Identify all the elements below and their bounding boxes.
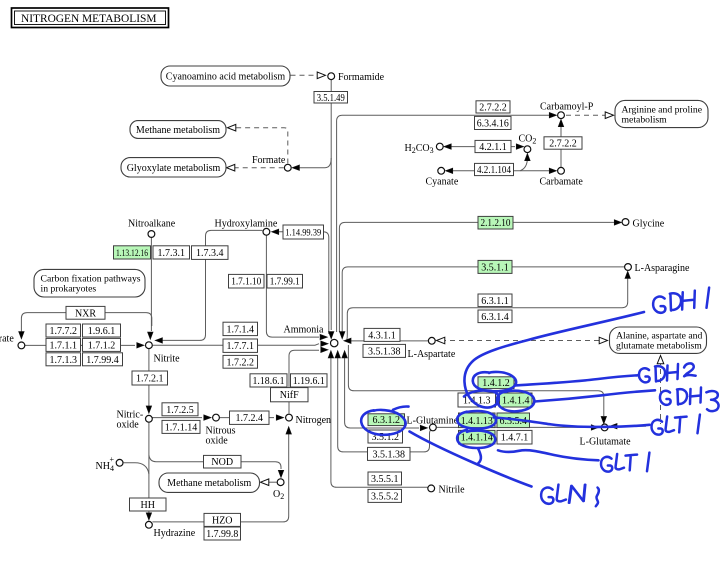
wire ammonia up to carbamoyl-P horizontal	[337, 115, 549, 332]
enzyme 4.2.1.104	[475, 163, 514, 176]
enzyme 1.4.1.2 (green)	[478, 377, 514, 389]
enzyme 1.7.1.2	[83, 338, 121, 351]
enzyme 3.5.1.2	[368, 430, 403, 443]
wire ammonia down to 3.5.1.38 glutaminase line	[338, 352, 432, 452]
title box NITROGEN METABOLISM	[12, 8, 169, 28]
wire ammonia to glycine line	[339, 222, 618, 332]
wire hydroxylamine down to ammonia 1.7.99.1	[266, 235, 319, 337]
svg-text:6.3.4.16: 6.3.4.16	[477, 118, 509, 129]
wire ammonia down to 1.4.1.2 glutamate line	[348, 345, 603, 416]
arrow down into L-glutamate	[601, 417, 606, 424]
dashed link L-glutamate to alanine metabolism	[660, 360, 662, 424]
svg-text:oxide: oxide	[206, 435, 229, 446]
svg-text:6.3.1.1: 6.3.1.1	[481, 296, 509, 307]
wire nitric oxide down through HH to hydrazine	[148, 423, 150, 514]
arrow down into ammonia from asparagine line	[340, 332, 345, 339]
blue handwriting GLT1a letter T	[675, 417, 687, 433]
svg-text:L-Glutamate: L-Glutamate	[580, 436, 632, 447]
blue handwriting GLT1a letter G	[652, 420, 663, 435]
arrow right into glycine	[614, 220, 621, 225]
arrow down into nitrate from NXR	[19, 332, 24, 339]
wire H2CO3 - 4.2.1.1 - CO2	[446, 146, 515, 148]
blue circle around 6.3.1.2	[361, 410, 405, 435]
svg-text:NifF: NifF	[280, 390, 299, 401]
svg-text:Cyanate: Cyanate	[426, 177, 459, 188]
wire 6.3.1.1 line ammonia to L-asparagine	[346, 276, 628, 341]
svg-text:3.5.5.2: 3.5.5.2	[371, 491, 399, 502]
svg-text:1.4.1.2: 1.4.1.2	[482, 378, 510, 389]
pathway box Cyanoamino acid metabolism	[161, 66, 290, 86]
svg-text:3.5.1.38: 3.5.1.38	[368, 346, 401, 357]
enzyme 1.9.6.1	[83, 324, 121, 337]
svg-text:1.7.99.1: 1.7.99.1	[270, 277, 300, 288]
arrow down into hydrazine	[146, 513, 151, 520]
svg-text:Carbamate: Carbamate	[540, 177, 584, 188]
svg-text:3.5.1.1: 3.5.1.1	[481, 262, 509, 273]
pathway box Glyoxylate metabolism	[121, 158, 226, 177]
node L-Asparagine	[625, 264, 632, 271]
wire curve carbamate line up to CO2	[520, 158, 527, 171]
svg-text:3.5.5.1: 3.5.5.1	[371, 474, 399, 485]
blue handwriting GDH2 letter D	[655, 366, 665, 381]
wire nitrogen fixation up to ammonia	[289, 350, 319, 413]
wire nitric oxide to nitrous oxide	[152, 417, 202, 419]
enzyme 1.7.99.8	[204, 527, 241, 540]
arrow up into carbamoyl-P from carbamate	[558, 120, 563, 127]
enzyme 1.7.1.14	[162, 420, 200, 433]
blue handwriting GDH3 letter D	[677, 389, 687, 404]
arrow up into CO2 from carbamate line	[525, 154, 530, 161]
svg-text:L-Glutamine: L-Glutamine	[407, 415, 459, 426]
svg-text:Hydrazine: Hydrazine	[154, 528, 196, 539]
enzyme 1.7.7.2	[46, 324, 81, 337]
blue handwriting GDH1 letter G	[653, 297, 665, 313]
svg-text:HZO: HZO	[212, 515, 233, 526]
svg-text:3.5.1.49: 3.5.1.49	[317, 93, 345, 104]
blue GDH1 tail curve	[464, 312, 644, 408]
enzyme 6.3.4.16	[475, 116, 512, 129]
blue handwriting GLT1b letter T	[626, 455, 638, 471]
arrow down into nitrite from nitroalkane	[148, 332, 153, 339]
enzyme 1.7.3.4	[192, 246, 229, 260]
svg-text:1.4.1.13: 1.4.1.13	[461, 416, 493, 427]
enzyme 3.5.1.38 glutamine	[368, 447, 411, 460]
enzyme 3.5.5.1	[368, 472, 402, 485]
node Nitrous oxide	[213, 414, 220, 421]
wire NOD branch to O2	[149, 455, 281, 469]
svg-text:1.7.99.8: 1.7.99.8	[206, 529, 238, 540]
dashed link carbamoyl-P to arginine metabolism	[566, 114, 605, 116]
blue circle around 1.4.1.2	[473, 372, 516, 391]
svg-text:1.7.1.2: 1.7.1.2	[88, 340, 116, 351]
enzyme 1.7.7.1	[223, 339, 258, 352]
arrow open left into methane metabolism from O2	[261, 479, 269, 486]
enzyme HZO	[204, 513, 241, 526]
enzyme 1.4.7.1	[497, 430, 532, 444]
wire ammonia down to nitrile 3.5.5 line	[331, 352, 428, 487]
blue handwriting GDH2 letter G	[639, 368, 650, 382]
pathway box Alanine aspartate and glutamate metabolism	[610, 327, 707, 353]
svg-text:4.2.1.104: 4.2.1.104	[477, 165, 511, 176]
node O2	[277, 479, 284, 486]
enzyme 2.7.2.2 carbamate	[544, 137, 582, 150]
blue handwriting GLT1b letter L	[616, 454, 624, 469]
arrow right into carbamoyl-P	[549, 113, 556, 118]
blue diagonal leader to GLN1	[410, 432, 532, 487]
enzyme NXR	[66, 306, 105, 319]
blue handwriting GLN1 squiggle 1	[596, 488, 599, 507]
arrow open left into L-aspartate	[437, 337, 445, 344]
blue handwriting GDH1 digit 1	[707, 288, 710, 308]
svg-text:2.7.2.2: 2.7.2.2	[479, 102, 507, 113]
arrow left into formate	[292, 165, 299, 170]
svg-text:1.7.1.14: 1.7.1.14	[165, 422, 198, 433]
svg-text:Methane metabolism: Methane metabolism	[136, 125, 220, 136]
enzyme 1.7.2.1	[132, 371, 168, 385]
blue handwriting GLN1 letter N	[569, 485, 585, 503]
enzyme 3.5.1.49	[314, 92, 348, 104]
svg-text:1.7.99.4: 1.7.99.4	[86, 355, 119, 366]
svg-text:1.7.3.1: 1.7.3.1	[158, 248, 186, 259]
blue circle around 1.4.1.4	[497, 391, 534, 412]
svg-text:in prokaryotes: in prokaryotes	[41, 284, 97, 295]
arrow left into hydroxylamine	[272, 229, 279, 234]
svg-text:1.7.2.1: 1.7.2.1	[136, 374, 164, 385]
blue leader from 1.4.1.13 to GLT1	[494, 418, 650, 427]
blue handwriting GDH2 digit 2	[684, 363, 696, 376]
node Ammonia junction	[331, 339, 338, 346]
dashed link formate to glyoxylate metabolism	[235, 167, 284, 169]
blue handwriting GLT1a digit 1	[698, 415, 700, 434]
blue tail below 1.4.1.14 circle	[478, 448, 481, 463]
node Nitroalkane	[148, 231, 155, 238]
enzyme 6.3.1.4	[478, 310, 512, 323]
svg-text:Hydroxylamine: Hydroxylamine	[215, 219, 278, 230]
svg-text:1.19.6.1: 1.19.6.1	[293, 376, 325, 387]
svg-text:6.3.1.4: 6.3.1.4	[481, 312, 509, 323]
wire NH4 joins anammox line	[124, 463, 149, 474]
enzyme 4.3.1.1	[364, 328, 400, 341]
arrow right into nitrite from nitrate	[137, 343, 144, 348]
svg-text:H2CO3: H2CO3	[405, 143, 434, 155]
enzyme HH	[130, 498, 167, 511]
enzyme 1.7.1.4	[223, 322, 258, 335]
svg-text:Glyoxylate metabolism: Glyoxylate metabolism	[127, 163, 221, 174]
arrow left into H2CO3	[444, 144, 451, 149]
blue handwriting GLN1 letter G	[541, 488, 553, 504]
svg-text:L-Asparagine: L-Asparagine	[635, 263, 691, 274]
wire hydroxylamine to 1.7.3.4 to nitrite	[162, 230, 262, 340]
wire NXR loop nitrate	[21, 313, 151, 332]
svg-text:L-Aspartate: L-Aspartate	[408, 349, 456, 360]
svg-text:1.7.1.1: 1.7.1.1	[50, 340, 78, 351]
blue handwriting GDH3 digit 3	[706, 391, 718, 411]
enzyme 1.7.1.10	[229, 274, 265, 288]
svg-text:1.7.7.2: 1.7.7.2	[50, 326, 78, 337]
blue handwriting GLT1b letter G	[601, 457, 612, 472]
wire nitrate to nitrite	[24, 344, 135, 346]
wire formamide to ammonia vertical	[330, 80, 332, 331]
enzyme 1.7.2.2 nitrite	[223, 355, 258, 368]
arrow right into CO2 from 4.2.1.1	[516, 144, 523, 149]
svg-text:1.7.2.4: 1.7.2.4	[236, 413, 264, 424]
enzyme 1.14.99.39	[283, 225, 324, 239]
enzyme 6.3.1.2 (green)	[368, 414, 405, 426]
wire cyanate - 4.2.1.104 - carbamate	[446, 170, 549, 172]
svg-text:metabolism: metabolism	[622, 114, 668, 125]
svg-text:Nitrile: Nitrile	[439, 485, 466, 496]
dashed link L-aspartate to alanine metabolism	[441, 340, 599, 342]
arrow right into L-glutamine	[420, 425, 427, 430]
arrow up into nitrogen from hydrazine	[286, 427, 291, 434]
wire right stub into L-glutamate	[611, 425, 646, 427]
enzyme 1.7.1.1	[46, 338, 81, 351]
enzyme 1.7.1.3	[46, 353, 81, 366]
wire nitrous oxide to nitrogen	[220, 417, 274, 419]
wire ammonia up to 1.14.99.39 hydroxylamine	[277, 232, 329, 334]
svg-text:1.7.3.4: 1.7.3.4	[196, 248, 224, 259]
blue circle around 1.4.1.14	[457, 430, 495, 448]
svg-text:NITROGEN METABOLISM: NITROGEN METABOLISM	[21, 13, 156, 25]
svg-text:NOD: NOD	[211, 457, 233, 468]
svg-text:Formamide: Formamide	[338, 72, 385, 83]
enzyme 1.4.1.4 (green)	[500, 393, 533, 407]
blue leader from 1.4.1.14 to second GLT1	[498, 450, 599, 460]
svg-text:Cyanoamino acid metabolism: Cyanoamino acid metabolism	[166, 72, 286, 83]
enzyme NifF	[271, 388, 309, 402]
node L-Glutamine	[430, 424, 437, 431]
enzyme 1.18.6.1	[250, 374, 287, 387]
arrow right into ammonia from nitrogen fixation	[321, 347, 328, 352]
node Hydroxylamine	[263, 228, 270, 235]
arrow open left into methane metabolism	[228, 124, 236, 131]
svg-text:1.9.6.1: 1.9.6.1	[88, 326, 116, 337]
enzyme 1.7.2.5	[162, 403, 198, 416]
svg-text:Ammonia: Ammonia	[284, 324, 325, 335]
enzyme 2.1.2.10 (green)	[478, 216, 513, 229]
node Nitrogen	[286, 414, 293, 421]
wire nitroalkane down to nitrite	[150, 238, 152, 332]
svg-text:1.7.1.10: 1.7.1.10	[231, 277, 261, 288]
arrow left into ammonia from 6.3.1.1 line	[344, 338, 351, 343]
blue handwriting GLN1 letter L	[557, 485, 566, 502]
node Carbamate	[558, 167, 565, 174]
svg-text:6.3.1.2: 6.3.1.2	[373, 415, 401, 426]
dashed link formate to methane metabolism	[236, 128, 288, 164]
svg-text:1.4.7.1: 1.4.7.1	[501, 433, 529, 444]
svg-text:Nitrate: Nitrate	[0, 334, 14, 345]
enzyme 1.7.2.4	[230, 411, 270, 424]
blue handwriting GDH2 letter H	[667, 364, 678, 381]
arrow down into O2 from NOD	[278, 470, 283, 477]
enzyme 1.7.99.4	[83, 353, 123, 366]
arrow left into cyanate	[446, 168, 453, 173]
node CO2	[524, 146, 531, 153]
blue leader from 1.4.1.4 circle to GDH3	[535, 390, 656, 401]
blue handwriting GDH3 letter H	[690, 388, 701, 405]
svg-text:1.7.1.3: 1.7.1.3	[50, 355, 78, 366]
pathway box Methane metabolism top	[130, 121, 226, 139]
wire carbamate to carbamoyl-P vertical	[560, 127, 562, 168]
enzyme 2.7.2.2 top	[476, 101, 510, 114]
node Hydrazine	[146, 521, 153, 528]
enzyme 1.7.3.1	[153, 246, 190, 259]
node Nitric oxide	[146, 415, 153, 422]
link O2 to methane metabolism	[268, 481, 277, 483]
wire nitrite down to nitric oxide	[148, 349, 150, 406]
enzyme 3.5.5.2	[368, 489, 402, 502]
svg-text:glutamate metabolism: glutamate metabolism	[616, 341, 702, 352]
enzyme 3.5.1.38 aspartate	[363, 344, 406, 357]
blue handwriting GDH1 letter H	[682, 291, 695, 310]
enzyme 4.2.1.1	[475, 140, 511, 153]
arrow left into L-glutamate from right stub	[610, 424, 617, 429]
svg-text:1.4.1.4: 1.4.1.4	[502, 396, 530, 407]
arrow into formamide (open) from cyanoamino	[317, 72, 325, 79]
blue handwriting GDH3 letter G	[660, 391, 671, 405]
svg-text:HH: HH	[141, 500, 155, 511]
arrow up into ammonia from nitrile line	[328, 351, 333, 358]
enzyme 6.3.1.1	[478, 294, 512, 307]
arrow down into nitric oxide	[146, 406, 151, 413]
svg-text:Nitrite: Nitrite	[154, 354, 181, 365]
enzyme 1.13.12.16 (green)	[114, 246, 151, 259]
enzyme NOD	[204, 455, 242, 468]
arrow left into nitrite from 1.7.3.4 line	[155, 338, 162, 343]
pathway box Arginine and proline metabolism	[615, 100, 708, 127]
node NH4+	[116, 459, 123, 466]
blue handwriting GLT1a letter L	[666, 417, 674, 432]
svg-text:Formate: Formate	[252, 155, 286, 166]
svg-text:2.7.2.2: 2.7.2.2	[549, 139, 577, 150]
blue tail top of 6.3.1.2 circle	[393, 407, 409, 410]
svg-text:Nitrogen: Nitrogen	[296, 415, 332, 426]
arrow up into ammonia from glutaminase line	[335, 351, 340, 358]
enzyme 1.4.1.14 (green)	[459, 430, 496, 444]
svg-text:1.4.1.14: 1.4.1.14	[461, 433, 493, 444]
svg-text:1.7.2.2: 1.7.2.2	[227, 357, 255, 368]
node Carbamoyl-P	[558, 112, 565, 119]
wire L-aspartate to ammonia	[346, 340, 429, 342]
arrow right into L-glutamate from glutamine	[591, 425, 598, 430]
dashed link cyanoamino to formamide	[291, 74, 316, 76]
enzyme 1.4.1.3	[458, 393, 496, 407]
wire ammonia to L-asparagine 3.5.1.1 line	[342, 267, 624, 334]
arrow up into L-asparagine	[625, 271, 630, 278]
wire ammonia down to 6.3.1.2 glutamine line	[345, 352, 419, 428]
svg-text:1.14.99.39: 1.14.99.39	[285, 229, 321, 239]
arrow open left into glyoxylate metabolism	[227, 164, 235, 171]
blue handwriting GDH1 letter D	[670, 293, 681, 310]
svg-text:Methane metabolism: Methane metabolism	[167, 478, 251, 489]
arrow open right into arginine metabolism	[605, 112, 613, 119]
svg-text:1.7.1.4: 1.7.1.4	[227, 324, 255, 335]
node Formate	[284, 164, 291, 171]
blue circle around 1.4.1.13	[457, 411, 496, 429]
node H2CO3	[436, 143, 443, 150]
arrow right into ammonia from nitrite	[321, 341, 328, 346]
svg-text:Carbamoyl-P: Carbamoyl-P	[540, 102, 594, 113]
svg-text:1.13.12.16: 1.13.12.16	[116, 248, 148, 258]
svg-text:1.7.2.5: 1.7.2.5	[166, 405, 194, 416]
svg-text:NXR: NXR	[75, 308, 96, 319]
node Nitrile	[428, 485, 435, 492]
node Glycine	[622, 219, 629, 226]
wire L-glutamine to L-glutamate	[437, 426, 591, 428]
svg-text:Nitroalkane: Nitroalkane	[128, 219, 176, 230]
arrow right into nitrous oxide	[204, 415, 211, 420]
svg-text:4.3.1.1: 4.3.1.1	[368, 330, 396, 341]
node Nitrate	[18, 342, 25, 349]
arrow right into nitrogen	[276, 415, 283, 420]
arrow right into carbamate	[549, 168, 556, 173]
node Formamide	[328, 73, 335, 80]
node Cyanate	[438, 167, 445, 174]
arrow down into ammonia from formamide line	[329, 332, 334, 339]
pathway box Carbon fixation pathways in prokaryotes	[34, 269, 145, 297]
wire hydrazine HZO to nitrogen	[152, 433, 288, 522]
svg-text:2.1.2.10: 2.1.2.10	[481, 218, 511, 229]
arrow right into ammonia from hydroxylamine line	[320, 334, 327, 339]
wire formate branch from formamide line	[298, 158, 331, 168]
svg-text:1.18.6.1: 1.18.6.1	[253, 376, 285, 387]
arrow open right into alanine metabolism	[599, 337, 607, 344]
svg-text:3.5.1.38: 3.5.1.38	[373, 449, 406, 460]
enzyme 3.5.1.1 (green)	[478, 260, 512, 273]
arrow open up into alanine metabolism from glutamate	[657, 356, 664, 364]
enzyme 1.4.1.13 (green)	[459, 413, 496, 428]
node L-Aspartate	[428, 337, 435, 344]
pathway box Methane metabolism bottom	[159, 473, 260, 492]
blue leader from 1.4.1.2 circle to GDH2	[515, 375, 638, 385]
blue handwriting GLT1b digit 1	[647, 453, 649, 472]
svg-text:1.7.7.1: 1.7.7.1	[227, 341, 255, 352]
arrow up into ammonia from glutamine line	[342, 351, 347, 358]
node L-Glutamate	[601, 424, 608, 431]
enzyme 1.7.99.1	[267, 274, 303, 288]
svg-text:oxide: oxide	[117, 420, 140, 431]
node Nitrite	[146, 342, 153, 349]
enzyme 1.19.6.1	[291, 374, 328, 387]
svg-text:4.2.1.1: 4.2.1.1	[479, 142, 507, 153]
wire nitrite to ammonia	[153, 344, 319, 346]
enzyme 6.3.5.4 (green)	[497, 413, 530, 428]
svg-text:Glycine: Glycine	[633, 218, 665, 229]
